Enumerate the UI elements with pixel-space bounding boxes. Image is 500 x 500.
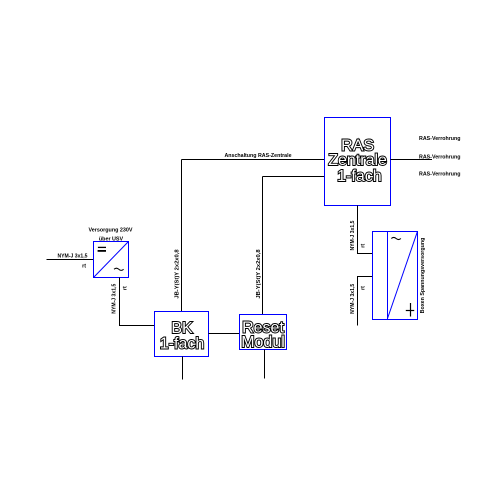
wire Reset Modul to RAS-Zentrale (horizontal) xyxy=(263,176,325,178)
svg-text:Boxen Spannungsversorgung: Boxen Spannungsversorgung xyxy=(420,238,426,314)
svg-text:1-fach: 1-fach xyxy=(160,336,204,353)
Reset Modul label text xyxy=(241,320,285,352)
label ueber USV xyxy=(99,237,124,243)
wire color label rt PSU output xyxy=(360,286,366,290)
converter T1 AC symbol xyxy=(114,268,124,270)
svg-text:RAS-Verrohrung: RAS-Verrohrung xyxy=(419,155,461,161)
cable label NYM-J 3x1,5 RAS to PSU xyxy=(350,220,356,250)
cable label NYM-J 3x1,5 on supply feed xyxy=(57,253,87,259)
wire BK to RAS-Zentrale (horizontal) xyxy=(182,159,325,161)
wire RAS-Zentrale to RAS piping (right stub) xyxy=(391,159,433,161)
Reset Modul box xyxy=(240,315,287,350)
PSU G1 plus symbol xyxy=(406,303,414,317)
converter T1 DC symbol xyxy=(98,247,106,251)
wire RAS-Zentrale to PSU G1 xyxy=(358,206,373,254)
wire color label rt RAS to PSU xyxy=(360,244,366,248)
svg-text:JB-Y(St)Y 2x2x0,8: JB-Y(St)Y 2x2x0,8 xyxy=(256,249,262,299)
wire BK to RAS-Zentrale (vertical drop to BK) xyxy=(181,160,183,312)
wire PSU G1 output stub down xyxy=(358,277,373,326)
label Anschaltung RAS-Zentrale xyxy=(224,153,291,159)
svg-text:NYM-J 3x1,5: NYM-J 3x1,5 xyxy=(350,284,356,314)
svg-text:1-fach: 1-fach xyxy=(337,168,381,185)
label RAS-Verrohrung 3 xyxy=(419,172,461,178)
svg-text:JB-Y(St)Y 2x2x0,8: JB-Y(St)Y 2x2x0,8 xyxy=(175,249,181,299)
label RAS-Verrohrung 1 xyxy=(419,136,461,142)
svg-text:rt: rt xyxy=(360,244,366,248)
svg-text:NYM-J 3x1,5: NYM-J 3x1,5 xyxy=(57,253,87,259)
svg-text:NYM-J 3x1,5: NYM-J 3x1,5 xyxy=(350,220,356,250)
label Versorgung 230V xyxy=(88,228,132,234)
PSU G1 body (Boxen power supply) xyxy=(373,232,418,320)
svg-text:Versorgung 230V: Versorgung 230V xyxy=(88,228,132,234)
BK 1-fach box xyxy=(155,312,209,357)
wire color label rt converter to BK xyxy=(123,286,129,290)
wire Reset Modul to RAS-Zentrale (vertical drop to Reset) xyxy=(262,177,264,315)
cable label NYM-J 3x1,5 converter to BK xyxy=(112,284,118,314)
RAS Zentrale label text xyxy=(328,137,387,185)
wire converter T1 to BK box xyxy=(120,278,155,326)
converter T1 body (AC/DC power supply) xyxy=(94,242,129,278)
label RAS-Verrohrung 2 xyxy=(419,155,461,161)
converter T1 diagonal xyxy=(94,242,128,277)
PSU G1 diagonal xyxy=(388,232,418,318)
wire BK to Reset Modul xyxy=(209,333,240,335)
svg-text:Anschaltung RAS-Zentrale: Anschaltung RAS-Zentrale xyxy=(224,153,291,159)
wire Reset Modul bottom stub xyxy=(264,350,266,379)
wire color label rt on supply feed xyxy=(82,264,86,270)
svg-text:rt: rt xyxy=(82,264,86,270)
svg-text:NYM-J 3x1,5: NYM-J 3x1,5 xyxy=(112,284,118,314)
cable label JB-Y(St)Y 2x2x0,8 on BK riser xyxy=(175,249,181,299)
svg-text:BK: BK xyxy=(171,320,193,337)
PSU G1 AC symbol xyxy=(391,237,401,239)
PSU G1 divider xyxy=(387,232,389,320)
svg-text:rt: rt xyxy=(360,286,366,290)
label Boxen Spannungsversorgung xyxy=(420,238,426,314)
BK 1-fach label text xyxy=(160,320,204,353)
cable label JB-Y(St)Y 2x2x0,8 on Reset riser xyxy=(256,249,262,299)
svg-text:RAS-Verrohrung: RAS-Verrohrung xyxy=(419,172,461,178)
wire supply feed into converter T1 xyxy=(47,259,94,261)
svg-text:Zentrale: Zentrale xyxy=(328,152,387,169)
RAS Zentrale box xyxy=(325,118,391,206)
svg-text:RAS-Verrohrung: RAS-Verrohrung xyxy=(419,136,461,142)
cable label NYM-J 3x1,5 PSU output xyxy=(350,284,356,314)
svg-text:rt: rt xyxy=(123,286,129,290)
svg-text:Modul: Modul xyxy=(241,334,285,351)
wire BK bottom stub xyxy=(182,357,184,380)
